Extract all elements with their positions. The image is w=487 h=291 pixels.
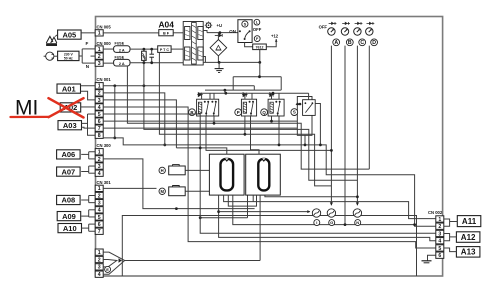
connector block A06 [57,150,81,159]
svg-text:A06: A06 [61,150,75,159]
svg-text:A10: A10 [63,224,77,233]
connector block A07 [57,167,81,176]
wire A03 to CN001 pins 5,8 bracket [82,114,88,123]
wire CN000 pin3 to fuse F2 [103,62,114,64]
svg-text:A09: A09 [62,212,76,221]
wire MOV to rails [143,49,145,51]
svg-text:CN 005: CN 005 [97,25,112,30]
switch S2 box [303,100,316,116]
svg-text:50 Hz: 50 Hz [64,56,73,60]
circled L [254,19,260,25]
stair wire w3 [159,52,331,186]
heater housing left [209,154,244,195]
rotary knob A [328,28,335,35]
rotary knob D [366,28,373,35]
wire A13 to CN002 pin5 [444,248,457,252]
heater bottom hairpin 1 [224,195,436,219]
pin 1 [95,149,103,155]
svg-text:1: 1 [98,47,101,53]
svg-text:1: 1 [98,250,101,256]
circled F [254,36,260,42]
bus stubs to relay tops [201,93,203,99]
lamp letter I [314,220,320,226]
svg-text:3: 3 [98,201,101,207]
wire A03 to CN001 pin7 [82,126,96,129]
svg-text:A: A [334,40,338,46]
connector block A05 [58,30,82,39]
connector block A13 [456,247,480,258]
bus 217 [200,217,247,219]
pin 4 [95,170,103,176]
svg-text:F: F [86,41,89,46]
svg-text:A11: A11 [462,217,477,226]
pin 5 [436,245,444,251]
antenna sensor symbol [46,36,57,44]
wire CN001 pin5 run [103,114,436,233]
svg-text:A04: A04 [159,19,175,29]
pin 1 [436,216,444,222]
wire 230V to F/N bracket [79,55,82,57]
indicator lamp N [353,209,361,217]
connector block A11 [457,216,481,227]
svg-text:7: 7 [98,229,101,235]
rotary knob C [354,28,361,35]
svg-text:6: 6 [98,119,101,125]
bridge rectifier D1 [210,40,227,56]
pin 2 [95,90,103,96]
heating element 2 [258,159,269,191]
wire plug to 230V box [54,55,58,57]
svg-text:A13: A13 [461,248,476,257]
mains line from funnel [125,260,260,262]
wire regulator to minus rail [259,50,261,63]
+12 bus over relays [199,92,309,94]
circled H [159,167,165,173]
wire regulator down to relay frame [259,62,261,76]
switch block S2 outline [297,97,312,136]
relay P coil diode [242,93,248,97]
svg-text:A05: A05 [62,30,76,39]
wire A07 to CN300 pins3,4 [81,171,89,173]
wire H to heater box [185,169,209,171]
svg-text:4: 4 [98,171,101,177]
svg-text:CN 000: CN 000 [97,41,112,46]
wire A01 to CN001 pin1 [81,85,96,87]
wire CN001 pin8 run [103,138,436,226]
earth stub to CN000 pin 2 [91,55,96,57]
svg-text:OFF: OFF [319,24,328,29]
svg-text:7: 7 [98,126,101,132]
svg-text:P: P [237,110,240,115]
H pump box [173,165,180,168]
wire knob B down [344,46,346,225]
pin 6 [95,118,103,124]
connector block A03 [58,121,82,130]
neutral rail fuse F2 to transformer [130,62,183,64]
circled M [159,188,165,194]
pin 2 [95,256,103,262]
svg-text:I: I [316,220,317,225]
pin 1 [95,46,103,52]
relay Q coil diode [269,93,275,97]
pin 2 [436,223,444,229]
heating element 1 [221,159,234,191]
connector block A02 [60,103,80,112]
pin 4 [95,104,103,110]
svg-text:2: 2 [98,54,101,60]
knob letter A [333,39,340,46]
+U rail [207,32,239,34]
wire transformer secondary to +U rail [203,31,207,33]
lamp letter G [329,220,335,226]
indicator lamp G [327,209,335,217]
live rail fuse F1 to PTC [130,48,158,50]
pin 3 [95,200,103,206]
red strike line [11,116,49,118]
wire A10 to CN301 pins6,7 [81,227,89,229]
svg-text:B F: B F [163,32,170,36]
svg-text:2: 2 [98,193,101,199]
svg-text:7612: 7612 [256,45,264,49]
svg-text:CN 300: CN 300 [97,143,112,148]
wire pin1/pin8 tie [114,86,116,138]
svg-text:5: 5 [98,112,101,118]
wire CN001 pin3 run [103,100,176,148]
svg-text:A07: A07 [61,167,75,176]
wire A02 to CN001 pin4 [81,106,96,108]
wire CN301 pin1 run [103,187,157,189]
mains plug symbol [44,52,54,60]
S2 drop [304,135,306,145]
pin 6 [95,221,103,227]
indicator lamp I [312,209,320,217]
varistor MOV [142,51,147,60]
pin 7 [95,228,103,234]
wire CN005 pin1 to BF [103,32,159,34]
heater feeds from above [176,148,226,154]
wire CN001 pin1 rail [103,85,254,87]
svg-text:3: 3 [98,265,101,271]
wire CN300 pin2 run [103,159,255,209]
wire M to heater box [185,190,209,192]
heater housing right [246,154,281,195]
svg-text:1: 1 [98,186,101,192]
rotary knob B [341,28,348,35]
wire A01 to CN001 pin3 [81,91,96,100]
upper bus [205,89,281,91]
svg-text:2: 2 [98,91,101,97]
lamp1 feed [219,195,436,241]
lamp3 feed bus [265,195,358,197]
regulator 7612 [253,44,267,50]
svg-text:C: C [360,40,364,46]
svg-text:5: 5 [438,246,441,252]
relay R box [197,99,219,116]
wire CN001 pin2 run [103,93,165,145]
svg-text:1: 1 [98,150,101,156]
wire MOV branch down to pin1 rail [143,63,145,86]
svg-text:FUSE: FUSE [115,55,125,59]
svg-text:2 A: 2 A [119,62,125,66]
wire switch to regulator 7612 [245,43,253,47]
wire knob D down [368,46,370,170]
svg-text:3: 3 [98,98,101,104]
svg-text:M: M [160,189,164,194]
ground from CN002 pin6 [428,255,436,261]
connector block A12 [456,232,480,243]
connector block A09 [57,212,80,221]
svg-text:OFF: OFF [253,27,262,32]
connector block A10 [58,224,82,233]
heater drop to mains line [259,195,261,260]
svg-text:4: 4 [438,239,441,245]
+12 output [266,39,276,47]
wire antenna to A05 [55,35,58,37]
wire A08 to CN301 pins2,3 [81,199,89,201]
pin 3 [436,230,444,236]
supply frame to relays [233,76,281,78]
svg-text:P T C: P T C [160,48,170,52]
svg-text:CN 301: CN 301 [97,180,112,185]
relay bottom bus w4 [206,116,331,150]
svg-text:E: E [106,267,109,272]
wire A12 to CN002 pins3,4 [444,233,450,240]
relay Q box [268,99,284,116]
knob letter B [346,39,353,46]
red X over A02 [49,98,84,117]
connector block A01 [57,84,81,93]
wire knob A down to lamp2 [330,46,332,206]
pin 7 [95,125,103,131]
svg-text:S: S [293,110,296,115]
svg-text:5: 5 [98,215,101,221]
svg-text:6: 6 [438,253,441,259]
wire A11 to CN002 pins1,2 [444,219,450,226]
pin 4 [95,271,103,277]
pin 4 [95,207,103,213]
svg-text:1: 1 [98,84,101,90]
svg-text:Q: Q [262,110,266,115]
relay P circled label [235,109,242,116]
pin 1 [95,249,103,255]
pin 3 [95,60,103,66]
svg-text:4: 4 [98,208,101,214]
svg-text:6: 6 [98,222,101,228]
connector block A08 [57,195,81,204]
pin 5 [95,214,103,220]
circled S label [291,109,298,116]
svg-text:CN 002: CN 002 [428,210,443,215]
heater bottom hairpin 2 [228,195,256,206]
svg-text:ON: ON [229,29,236,34]
circled S [242,21,248,27]
svg-text:2 A: 2 A [119,49,125,53]
lamp symbol O [206,23,211,28]
wire A09 to CN301 pins4,5 [81,215,89,217]
bottom bus 215 [122,216,416,277]
circled E earth [105,266,111,272]
svg-text:1: 1 [438,217,441,223]
main board outline [96,17,443,277]
svg-text:A03: A03 [63,121,77,130]
svg-text:CN 001: CN 001 [97,77,112,82]
svg-text:3: 3 [98,164,101,170]
minus rail [204,61,260,63]
mains funnel connector [103,252,125,274]
svg-text:4: 4 [98,272,101,278]
pin 8 [95,132,103,138]
pin 1 [95,185,103,191]
thermal cutout BF [159,30,173,36]
M pump box [173,186,180,189]
svg-text:2: 2 [98,157,101,163]
wire rectifier bottom [217,56,219,63]
wire CN001 pin4 run [103,107,436,248]
svg-text:4: 4 [98,105,101,111]
svg-text:FUSE: FUSE [115,42,125,46]
PTC resistor [158,46,171,53]
wire PTC to transformer [171,48,183,50]
pin 2 [95,192,103,198]
svg-text:S: S [244,21,247,26]
relay contact drops [213,116,215,123]
lamp letter N [355,220,361,226]
svg-text:B: B [348,40,352,46]
pin 3 [95,163,103,169]
pin 2 [95,53,103,59]
relay R circled label [189,109,196,116]
knob letter C [359,39,366,46]
svg-text:8: 8 [98,133,101,139]
S2 right wire [315,104,320,145]
stair wire w2 [144,86,358,181]
stair wire w1 from neutral [127,66,369,169]
svg-text:H: H [161,168,164,173]
wire CN001 pin6 bus [103,120,297,122]
relay R coil diode [197,93,203,97]
power switch S1 box [238,20,252,43]
wire rectifier top to +U rail [217,33,219,40]
svg-text:3: 3 [438,231,441,237]
relay P box [241,99,256,116]
pin 2 [95,156,103,162]
svg-text:+U: +U [217,23,222,28]
pin 1 [95,83,103,89]
pin 4 [436,238,444,244]
wire knob C down to lamp3 [356,46,358,206]
svg-text:A01: A01 [62,84,76,93]
pin 3 [95,264,103,270]
switch contacts [239,30,241,32]
svg-text:A12: A12 [461,233,476,242]
svg-text:1: 1 [98,31,101,37]
S2 coil blob [296,104,301,106]
knob letter D [371,39,378,46]
arrow on +U rail [215,34,222,37]
heater drop to 217 bus [247,195,249,218]
svg-text:2: 2 [438,224,441,230]
transformer T1 [183,22,203,66]
svg-text:3: 3 [98,61,101,67]
svg-text:+12: +12 [271,34,279,39]
heater drop to 224 bus [233,195,415,225]
wire A06 to CN300 pins1,2 [81,153,89,155]
pin 1 [95,30,103,36]
relay Q circled label [261,109,268,116]
pin 6 [436,252,444,258]
wire A05 to CN005 pin 1 [81,32,95,34]
svg-text:2: 2 [98,257,101,263]
svg-text:A08: A08 [61,196,75,205]
wire CN001 pin7 bus [103,127,297,129]
svg-text:N: N [356,220,359,225]
pin 3 [95,97,103,103]
signal ground symbol [218,62,220,68]
svg-text:D: D [372,40,376,46]
mains 230V box [58,51,79,60]
capacitor X2 vertical [151,49,153,54]
wire pin1 rail down to relay P [253,86,255,90]
wire transformer secondary low to minus rail [203,57,205,63]
wire CN000 pin1 to fuse F1 [103,48,114,50]
pin 5 [95,111,103,117]
svg-text:G: G [330,220,333,225]
wire BF to transformer [173,32,183,34]
